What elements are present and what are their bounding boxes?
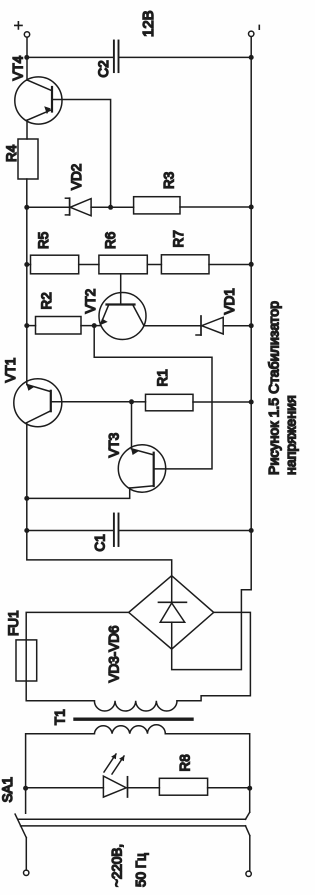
wire VT4 base to VD2-R3 node [53,100,111,208]
LED indicator [103,776,127,797]
capacitor C2 [27,41,251,73]
svg-text:R1: R1 [155,369,170,386]
svg-text:Рисунок 1.5 Стабилизатор: Рисунок 1.5 Стабилизатор [267,301,283,475]
wire primary bottom to switch [165,734,249,813]
label plus [15,22,22,29]
wire top rail left of VT1 down to bridge right corner [27,423,172,576]
wire bridge top corner to FU1 and secondary [26,612,129,700]
svg-text:VD3-VD6: VD3-VD6 [107,625,122,682]
wire R2 to VT2 emitter [81,325,100,327]
bridge rectifier VD3-VD6 [129,576,214,649]
svg-text:VT2: VT2 [83,289,98,314]
wire R5 to R6 [79,264,99,266]
svg-text:VT4: VT4 [11,55,26,80]
resistor R2 [36,317,82,335]
resistor R3 [134,197,180,214]
resistor R5 [31,255,79,274]
transformer T1 core [75,718,192,721]
transistor VT3 [118,445,165,492]
wire top rail middle segment R4 to VT1 emitter [26,179,28,385]
svg-text:FU1: FU1 [6,610,21,636]
diode VD2 (zener) [27,198,134,216]
wire VT2 emitter route to VT3 base [94,326,212,469]
LED indicator branch top wire [26,787,104,789]
wire R6 tap to VT2 base [120,274,122,304]
wire VT3 emitter to node [131,402,133,449]
resistor R1 [146,394,194,411]
input terminal lower [246,871,251,876]
transistor VT4 [15,77,62,124]
resistor R4 [18,139,38,179]
svg-text:C1: C1 [93,534,108,551]
wire divider top [27,264,31,266]
wire primary top to switch [26,734,95,814]
svg-text:50 Гц: 50 Гц [134,853,149,887]
svg-text:VD2: VD2 [69,164,84,190]
svg-text:~220В,: ~220В, [110,844,125,887]
output terminal plus [24,32,29,37]
wire top rail between VT4 and R4 [26,120,28,139]
svg-text:R4: R4 [4,144,19,162]
svg-text:R8: R8 [178,754,193,771]
svg-text:R7: R7 [171,230,186,247]
wire R6 to R7 [147,264,161,266]
resistor R8 [159,778,207,795]
transistor VT2 [99,293,146,340]
wire lower terminal to switch [249,836,251,872]
resistor R7 [161,255,209,274]
svg-text:VT3: VT3 [107,433,122,458]
wire top rail right segment to + terminal [26,37,28,80]
svg-text:R2: R2 [39,292,54,309]
resistor R6 [99,255,147,274]
junction dots bottom rail [249,55,254,533]
wire R7 to bottom rail [209,264,251,266]
wire R3 to bottom rail [180,206,251,208]
wire VT2 collector to VD1 [144,325,201,327]
transistor VT1 [14,379,62,427]
svg-text:R6: R6 [103,232,118,249]
input terminal upper [24,870,29,875]
switch SA1 [15,812,250,837]
svg-text:VT1: VT1 [3,358,18,383]
svg-text:напряжения: напряжения [284,395,300,475]
capacitor C1 [27,514,251,547]
wire VT3 collector to top rail [27,488,130,498]
wire bridge bottom corner to secondary bottom [177,612,250,700]
junction dots top rail [24,55,29,533]
svg-text:C2: C2 [96,60,111,77]
transformer primary winding [94,725,165,734]
LED arrows [104,754,124,775]
output terminal minus [249,31,254,36]
wire node to R1 [132,401,146,403]
fuse FU1 [16,640,37,681]
junction dots middle nodes [23,205,252,791]
wire R1 to bottom rail [193,401,251,403]
transformer secondary winding [94,701,177,711]
wire rail to R2 [27,325,36,327]
svg-text:12В: 12В [140,10,157,37]
svg-text:R5: R5 [36,232,51,249]
diode VD1 (zener) [196,316,251,335]
wire upper terminal to switch [25,838,27,871]
label minus [258,25,260,29]
svg-text:SA1: SA1 [0,777,15,803]
wire LED to R8 [128,787,160,789]
svg-text:T1: T1 [53,709,68,725]
wire bottom rail from minus terminal with jog to bridge left corner [172,37,252,670]
svg-text:R3: R3 [162,172,177,189]
wire R8 to bottom [208,787,250,789]
svg-text:VD1: VD1 [222,288,237,314]
wire VT1 base down to node [52,401,132,403]
